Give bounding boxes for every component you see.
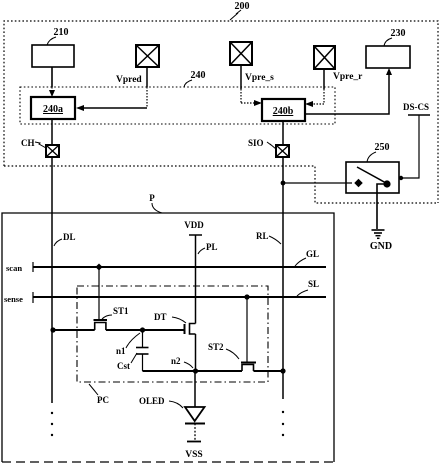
label SL bbox=[297, 279, 319, 296]
label OLED bbox=[139, 396, 183, 408]
label DT bbox=[154, 312, 186, 323]
svg-text:Vpre_r: Vpre_r bbox=[333, 72, 363, 82]
svg-text:scan: scan bbox=[6, 263, 22, 273]
label PL bbox=[198, 242, 218, 254]
svg-text:RL: RL bbox=[256, 231, 269, 241]
svg-text:DS-CS: DS-CS bbox=[403, 102, 429, 112]
wire 240a to CH bbox=[51, 119, 53, 145]
svg-text:240b: 240b bbox=[273, 106, 294, 117]
svg-text:GND: GND bbox=[370, 241, 392, 252]
svg-text:DL: DL bbox=[63, 232, 76, 242]
terminal Vpred bbox=[116, 45, 159, 85]
svg-text:PL: PL bbox=[206, 242, 218, 252]
wire DL bbox=[51, 157, 53, 403]
label 240 bbox=[184, 70, 206, 87]
RL continuation dots bbox=[282, 411, 284, 436]
svg-text:ST1: ST1 bbox=[113, 306, 129, 316]
label PC bbox=[89, 384, 109, 405]
wire SIO down to pixel (RL) bbox=[282, 157, 284, 399]
terminal Vpre_r bbox=[314, 46, 363, 82]
node n1 dot bbox=[140, 327, 145, 332]
svg-text:P: P bbox=[149, 193, 155, 203]
label GL bbox=[295, 249, 319, 266]
switch pole and lever bbox=[357, 167, 391, 188]
wire DS-CS to 250 bbox=[399, 115, 419, 180]
block 250 (switch) bbox=[346, 142, 399, 193]
switch contact diamond bbox=[354, 179, 362, 187]
svg-text:240: 240 bbox=[191, 70, 206, 81]
terminal Vpre_s bbox=[230, 42, 274, 83]
diode OLED bbox=[185, 371, 205, 441]
svg-text:sense: sense bbox=[4, 294, 23, 304]
transistor ST1 bbox=[94, 267, 108, 330]
svg-text:n1: n1 bbox=[116, 346, 126, 356]
wire SIO junction to 250 bbox=[283, 182, 352, 184]
svg-text:250: 250 bbox=[375, 142, 390, 153]
block 230 bbox=[366, 28, 410, 68]
junction GL - ST1 gate bbox=[95, 263, 102, 270]
wire SL bbox=[33, 296, 326, 298]
svg-text:SIO: SIO bbox=[248, 138, 264, 148]
node n2 dot bbox=[193, 368, 198, 373]
tick sense bbox=[32, 292, 34, 303]
DL continuation dots bbox=[51, 412, 53, 436]
label RL bbox=[256, 231, 281, 244]
label n2 bbox=[171, 356, 193, 368]
power VDD bbox=[184, 220, 204, 235]
junction SL - ST2 gate bbox=[244, 294, 249, 299]
svg-text:SL: SL bbox=[308, 279, 319, 289]
tick scan bbox=[32, 262, 34, 272]
transistor ST2 bbox=[241, 297, 256, 371]
wire PL bbox=[195, 235, 197, 324]
wire 250 pole to GND bbox=[377, 184, 384, 229]
wire Vpre_s to 240b with arrow bbox=[241, 65, 262, 106]
label DL bbox=[54, 232, 76, 246]
node SIO terminal bbox=[248, 138, 289, 157]
outer dotted box 200 bbox=[4, 21, 438, 203]
junction dot SIO-250 bbox=[281, 181, 286, 186]
dash-dot box PC bbox=[77, 286, 268, 382]
wire ST1 to DT gate bbox=[106, 329, 184, 331]
junction dot RL bbox=[280, 368, 285, 373]
junction dot DL bbox=[50, 327, 55, 332]
wire Vpred to 240a with arrow bbox=[76, 67, 147, 111]
block 210 bbox=[32, 27, 74, 67]
wire GL bbox=[33, 266, 326, 268]
block 240a bbox=[31, 97, 75, 119]
svg-text:OLED: OLED bbox=[139, 396, 165, 406]
label ST2 bbox=[208, 342, 239, 359]
transistor DT bbox=[185, 324, 196, 372]
svg-text:240a: 240a bbox=[43, 104, 63, 115]
capacitor Cst bbox=[136, 330, 149, 371]
svg-text:DT: DT bbox=[154, 312, 167, 322]
svg-text:Vpred: Vpred bbox=[116, 75, 142, 85]
wire DL to ST1 bbox=[52, 329, 95, 331]
pixel box P bbox=[2, 193, 334, 462]
wire n2 row bbox=[143, 370, 243, 372]
svg-text:200: 200 bbox=[235, 1, 250, 12]
wire ST2 to RL bbox=[254, 370, 284, 372]
svg-text:VSS: VSS bbox=[185, 450, 202, 460]
label Cst bbox=[117, 353, 137, 371]
svg-text:ST2: ST2 bbox=[208, 342, 224, 352]
label n1 bbox=[116, 333, 140, 356]
svg-text:Vpre_s: Vpre_s bbox=[245, 73, 274, 83]
svg-text:230: 230 bbox=[391, 28, 406, 39]
svg-text:GL: GL bbox=[306, 249, 319, 259]
svg-text:Cst: Cst bbox=[117, 361, 130, 371]
svg-text:210: 210 bbox=[54, 27, 69, 38]
dashed box 240 bbox=[20, 87, 335, 124]
node CH terminal bbox=[21, 138, 59, 157]
label 200 bbox=[230, 1, 250, 20]
block 240b bbox=[262, 99, 305, 121]
svg-text:VDD: VDD bbox=[184, 220, 204, 230]
wire 240b to 230 with arrow bbox=[305, 68, 392, 114]
svg-text:n2: n2 bbox=[171, 356, 181, 366]
svg-text:PC: PC bbox=[97, 395, 109, 405]
ground GND bbox=[370, 230, 392, 252]
label ST1 bbox=[102, 306, 129, 319]
wire 240b to SIO bbox=[282, 121, 284, 145]
svg-text:CH: CH bbox=[21, 138, 35, 148]
wire Vpre_r to 240b with arrow bbox=[305, 69, 324, 107]
terminal DS-CS bbox=[403, 102, 430, 115]
power VSS bbox=[185, 442, 202, 461]
wire 210 to 240a with arrow bbox=[49, 67, 55, 97]
